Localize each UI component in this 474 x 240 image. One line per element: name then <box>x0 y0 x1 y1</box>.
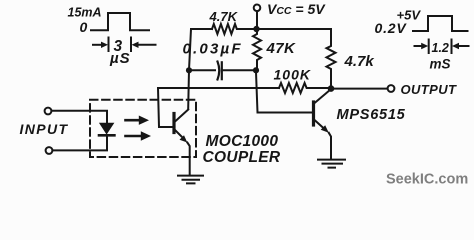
output pulse waveform <box>413 16 468 31</box>
dimension ticks 1.2mS <box>429 40 452 54</box>
LED cathode bar <box>99 134 114 137</box>
ground coupler <box>178 176 203 184</box>
dimension arrow left (output) <box>415 45 422 47</box>
dimension arrowhead left <box>101 42 108 48</box>
dimension arrowhead right <box>132 42 139 48</box>
svg-text:15mA: 15mA <box>68 6 102 20</box>
OUTPUT terminal <box>388 85 395 92</box>
dimension arrowhead left (output) <box>421 43 428 49</box>
svg-text:COUPLER: COUPLER <box>203 149 281 166</box>
wire output <box>331 88 387 90</box>
wire VCC stub <box>256 11 258 29</box>
wire input top <box>52 111 107 123</box>
svg-text:MOC1000: MOC1000 <box>206 133 279 150</box>
node cap right <box>253 67 259 73</box>
svg-text:4.7k: 4.7k <box>344 53 375 70</box>
svg-text:1.2: 1.2 <box>432 41 449 55</box>
phototransistor Q1 bar <box>172 114 175 133</box>
wire input bottom <box>53 136 107 150</box>
resistor R1 4.7K <box>212 24 256 34</box>
svg-text:0: 0 <box>80 19 88 35</box>
svg-text:0.03µF: 0.03µF <box>183 41 243 58</box>
svg-text:4.7K: 4.7K <box>209 9 239 24</box>
input pulse waveform <box>91 13 149 30</box>
optocoupler dashed box <box>90 100 196 157</box>
Q1 emitter arrowhead <box>180 135 188 142</box>
node cap left <box>186 67 192 73</box>
dimension arrow right <box>138 44 156 46</box>
dimension arrow right (output) <box>459 45 469 47</box>
svg-text:SeekIC.com: SeekIC.com <box>386 171 468 187</box>
transistor Q2 MPS6515 bar <box>312 102 315 125</box>
phototransistor Q1 base lead <box>158 88 174 127</box>
light arrow lower shaft <box>126 135 142 138</box>
wire top rail left corner to resistor <box>191 28 212 30</box>
INPUT terminal bottom <box>46 147 53 154</box>
svg-text:MPS6515: MPS6515 <box>337 107 406 123</box>
Q1 collector slant <box>175 110 189 123</box>
resistor R2 47K <box>253 29 261 70</box>
light arrow upper head <box>139 116 149 125</box>
Q2 emitter <box>314 120 325 130</box>
resistor R4 4.7k <box>327 29 336 88</box>
svg-text:0.2V: 0.2V <box>375 20 408 36</box>
wire base net to 100K <box>158 87 279 89</box>
svg-text:mS: mS <box>430 56 451 71</box>
Q2 emitter arrowhead <box>321 125 329 133</box>
wire MPS base from cap node <box>256 72 313 113</box>
node VCC junction <box>253 26 259 32</box>
Q1 emitter slant <box>175 130 184 139</box>
light arrow upper shaft <box>126 119 140 122</box>
Q2 collector <box>314 90 331 104</box>
wire Q1 emitter to ground <box>187 143 189 176</box>
wire Q2 emitter to ground <box>329 133 331 159</box>
VCC terminal <box>254 5 261 12</box>
wire phototransistor collector riser <box>188 29 191 109</box>
node collector junction <box>328 85 335 92</box>
svg-text:100K: 100K <box>274 67 311 83</box>
wire top rail right <box>256 28 331 30</box>
dimension ticks 3µS <box>109 38 132 52</box>
capacitor C1 0.03µF <box>192 69 215 71</box>
dimension arrow left <box>93 44 102 46</box>
LED D1 <box>100 124 113 134</box>
ground output stage <box>318 160 345 168</box>
dimension arrowhead right (output) <box>452 43 459 49</box>
INPUT terminal top <box>45 108 52 115</box>
resistor R3 100K <box>279 83 328 93</box>
svg-text:OUTPUT: OUTPUT <box>401 82 457 97</box>
svg-text:INPUT: INPUT <box>20 121 69 137</box>
svg-text:VCC = 5V: VCC = 5V <box>267 1 326 17</box>
svg-text:47K: 47K <box>266 40 296 57</box>
light arrow lower head <box>141 131 151 140</box>
svg-text:µS: µS <box>109 50 131 67</box>
